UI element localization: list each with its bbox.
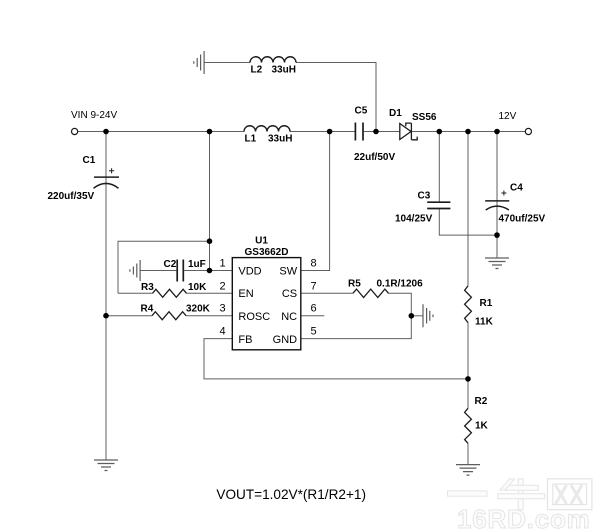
svg-text:C4: C4 <box>510 183 523 194</box>
ground at C2 (sideways) <box>130 260 140 281</box>
junction C5 / L2 / D1 <box>373 129 379 135</box>
svg-text:C5: C5 <box>355 106 368 117</box>
wire R2 branch <box>467 379 469 465</box>
capacitor C4 (polarized electrolytic) <box>485 201 509 210</box>
svg-text:CS: CS <box>282 288 297 300</box>
C4 polarity plus sign <box>501 191 506 196</box>
inductor L1 <box>244 126 290 132</box>
junction 12V rail / C3 <box>437 129 443 135</box>
svg-text:R5: R5 <box>348 279 361 290</box>
svg-text:R3: R3 <box>141 282 154 293</box>
svg-text:16RD.com: 16RD.com <box>457 504 591 532</box>
junction 12V rail / C4 <box>494 129 500 135</box>
inductor L2 <box>250 57 296 63</box>
svg-text:D1: D1 <box>389 108 402 119</box>
svg-text:1: 1 <box>220 258 226 270</box>
svg-text:8: 8 <box>311 258 317 270</box>
svg-text:33uH: 33uH <box>268 133 292 144</box>
svg-text:GND: GND <box>273 334 298 346</box>
wire C3 branch and bottom rail <box>439 132 497 236</box>
wire C1 branch to ground <box>105 132 107 461</box>
svg-text:7: 7 <box>311 280 317 292</box>
diode D1 SS56 (schottky) <box>400 123 417 140</box>
wire R1 branch <box>467 132 469 379</box>
svg-text:C2: C2 <box>164 259 177 270</box>
svg-text:10K: 10K <box>188 282 207 293</box>
wire NC pin 6 stub <box>301 315 325 317</box>
svg-text:VIN 9-24V: VIN 9-24V <box>71 110 117 121</box>
watermark 16RD.com logo <box>448 479 592 532</box>
wire R5 ground stub <box>411 315 423 317</box>
capacitor C1 (polarized electrolytic) <box>94 177 120 188</box>
junction FB / R1 / R2 <box>465 376 471 382</box>
svg-text:NC: NC <box>281 311 297 323</box>
svg-text:470uf/25V: 470uf/25V <box>499 214 546 225</box>
svg-text:104/25V: 104/25V <box>395 214 433 225</box>
svg-text:6: 6 <box>311 303 317 315</box>
svg-text:FB: FB <box>238 334 252 346</box>
junction C3 / C4 bottom rail <box>494 232 500 238</box>
svg-text:R2: R2 <box>475 396 488 407</box>
svg-text:11K: 11K <box>475 317 494 328</box>
svg-text:1uF: 1uF <box>188 259 206 270</box>
wire CS pin 7 through R5 to GND pin 5 <box>301 293 412 338</box>
resistor R1 <box>465 286 472 323</box>
ground below C4 <box>485 258 509 269</box>
svg-text:220uf/35V: 220uf/35V <box>48 191 95 202</box>
node 12V output terminal <box>525 128 531 134</box>
svg-text:SW: SW <box>279 266 297 278</box>
svg-text:5: 5 <box>311 326 317 338</box>
svg-text:0.1R/1206: 0.1R/1206 <box>377 279 424 290</box>
svg-text:1K: 1K <box>475 421 489 432</box>
svg-text:SS56: SS56 <box>412 112 437 123</box>
wire main VIN rail <box>77 131 525 133</box>
svg-text:U1: U1 <box>255 236 268 247</box>
svg-text:R4: R4 <box>141 304 154 315</box>
svg-text:EN: EN <box>238 288 253 300</box>
capacitor C3 <box>427 202 450 208</box>
node VIN input terminal <box>72 128 78 134</box>
ground below R2 <box>456 465 480 476</box>
resistor R4 <box>152 312 186 320</box>
IC U1 GS3662D body <box>232 258 300 350</box>
svg-text:VDD: VDD <box>238 266 261 278</box>
wire EN bracket <box>118 241 210 293</box>
svg-text:C3: C3 <box>418 191 431 202</box>
wire C2 row <box>140 270 209 272</box>
ground below C1 <box>94 460 118 471</box>
junction R5 / ground <box>409 313 415 319</box>
svg-text:3: 3 <box>220 303 226 315</box>
svg-text:4: 4 <box>220 326 226 338</box>
junction L1 / SW <box>327 129 333 135</box>
svg-text:L2: L2 <box>251 64 263 75</box>
wire R3 row <box>118 292 232 294</box>
C1 polarity plus sign <box>109 168 114 173</box>
svg-text:320K: 320K <box>186 304 211 315</box>
wire FB pin 4 loop to R1/R2 node <box>204 339 468 379</box>
wire SW pin 8 to L1 node <box>301 132 330 271</box>
svg-text:VOUT=1.02V*(R1/R2+1): VOUT=1.02V*(R1/R2+1) <box>216 487 366 502</box>
svg-text:R1: R1 <box>480 298 493 309</box>
wire C4 branch <box>496 132 498 259</box>
junction VDD / C2 <box>207 268 213 274</box>
capacitor C2 <box>177 260 183 282</box>
junction C1 column / R4 <box>103 313 109 319</box>
capacitor C5 <box>355 123 363 141</box>
resistor R3 <box>153 289 187 297</box>
junction VIN / C1 <box>103 129 109 135</box>
wire L2 ground to L2 and down to D1 node <box>204 63 376 132</box>
svg-text:ROSC: ROSC <box>238 311 270 323</box>
junction 12V rail / R1 <box>465 129 471 135</box>
wire R4 row <box>106 315 232 317</box>
svg-text:22uf/50V: 22uf/50V <box>354 152 395 163</box>
resistor R5 <box>353 289 389 297</box>
svg-text:L1: L1 <box>245 133 257 144</box>
junction EN bracket / VDD column <box>207 238 213 244</box>
ground at L2 (sideways) <box>194 51 204 74</box>
svg-text:12V: 12V <box>499 111 517 122</box>
resistor R2 <box>465 408 472 443</box>
svg-text:C1: C1 <box>83 155 96 166</box>
junction VIN / VDD column <box>207 129 213 135</box>
svg-text:GS3662D: GS3662D <box>245 247 289 258</box>
ground at R5 (sideways) <box>423 304 433 327</box>
wire VDD vertical <box>210 132 233 271</box>
svg-text:2: 2 <box>220 280 226 292</box>
svg-text:33uH: 33uH <box>272 64 296 75</box>
